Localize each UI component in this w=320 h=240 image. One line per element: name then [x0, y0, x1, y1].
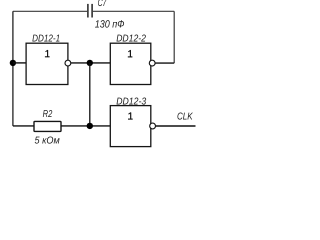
wire — [173, 11, 175, 63]
wire — [156, 125, 196, 127]
inverter DD12-1 — [26, 33, 71, 84]
node junction — [10, 60, 16, 66]
svg-text:130 пФ: 130 пФ — [95, 19, 125, 31]
wire — [155, 62, 174, 64]
svg-text:CLK: CLK — [177, 111, 194, 122]
wire — [71, 62, 110, 64]
inversion bubble — [150, 123, 156, 129]
gate symbol 1 — [129, 113, 131, 115]
gate symbol 1 — [128, 50, 130, 52]
svg-text:R2: R2 — [43, 109, 53, 120]
wire — [61, 125, 110, 127]
gate body DD12-2 — [110, 43, 151, 84]
resistor R2 — [34, 109, 61, 146]
node junction — [87, 60, 93, 66]
wire — [13, 62, 26, 64]
wire — [13, 10, 87, 12]
gate body DD12-1 — [26, 43, 68, 84]
capacitor plate — [87, 4, 89, 18]
node junction — [87, 123, 93, 129]
capacitor C7 — [88, 0, 124, 31]
inverter DD12-2 — [110, 33, 155, 84]
inversion bubble — [149, 60, 155, 66]
wire — [12, 11, 14, 126]
wire — [93, 10, 174, 12]
resistor body — [34, 121, 61, 131]
svg-text:C7: C7 — [98, 0, 107, 9]
gate body DD12-3 — [110, 106, 151, 147]
gate symbol 1 — [46, 50, 48, 52]
svg-text:5 кОм: 5 кОм — [35, 135, 60, 146]
inversion bubble — [65, 60, 71, 66]
wire — [13, 125, 34, 127]
inverter DD12-3 — [110, 96, 155, 146]
capacitor plate — [91, 4, 93, 18]
wire — [89, 63, 91, 126]
